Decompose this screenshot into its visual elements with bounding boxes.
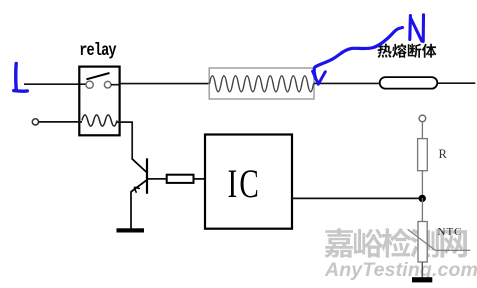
- ground (transistor emitter): [117, 228, 145, 232]
- svg-text:IC: IC: [228, 161, 262, 206]
- svg-text:NTC: NTC: [438, 226, 463, 238]
- wire contact to heater: [111, 84, 210, 85]
- transistor Q1 emitter arrow: [134, 187, 140, 193]
- base resistor box: [167, 175, 194, 183]
- thermistor NTC box: [418, 222, 427, 263]
- svg-text:AnyTesting.com: AnyTesting.com: [324, 259, 477, 281]
- wire coil to collector: [117, 122, 132, 159]
- transistor Q1 base bar: [146, 158, 148, 194]
- blue pen squiggle to N: [314, 28, 402, 79]
- resistor R box: [418, 139, 428, 171]
- heater coil wave: [210, 76, 314, 92]
- relay contact left: [86, 81, 93, 88]
- relay contact right: [104, 81, 111, 88]
- fuse label 热熔断体: [377, 44, 436, 58]
- IC U1 box: [205, 135, 292, 229]
- transistor Q1 emitter diagonal: [131, 180, 147, 192]
- wire emitter to ground: [130, 192, 132, 230]
- junction node: [419, 195, 426, 202]
- wire L input: [24, 83, 86, 85]
- wire NTC to ground: [421, 262, 423, 277]
- wire resistor to IC: [194, 178, 206, 180]
- wire junction to NTC: [421, 198, 423, 222]
- ground (NTC): [412, 277, 432, 282]
- wire terminal to coil: [39, 121, 83, 123]
- wire R to junction: [421, 171, 423, 198]
- svg-text:relay: relay: [79, 40, 117, 60]
- wire IC output: [292, 197, 422, 199]
- wire terminal to R: [421, 122, 423, 139]
- heater element box: [209, 68, 314, 99]
- relay switch blade: [86, 73, 109, 79]
- wire heater to fuse: [314, 82, 380, 84]
- wire base to resistor: [148, 178, 167, 180]
- R top terminal: [419, 115, 426, 122]
- svg-text:R: R: [439, 147, 448, 161]
- wire N output: [437, 82, 475, 84]
- blue pen arrowhead: [313, 71, 326, 84]
- watermark 嘉峪检测网: [324, 228, 467, 258]
- relay K1 box: [79, 67, 119, 136]
- relay coil: [82, 115, 117, 126]
- coil input terminal: [32, 119, 38, 125]
- thermistor NTC diagonal: [408, 229, 471, 250]
- blue pen mark L (live terminal): [14, 64, 27, 92]
- thermal fuse body: [380, 77, 438, 89]
- blue pen mark N (neutral): [410, 15, 424, 42]
- transistor Q1 collector diagonal: [132, 159, 147, 173]
